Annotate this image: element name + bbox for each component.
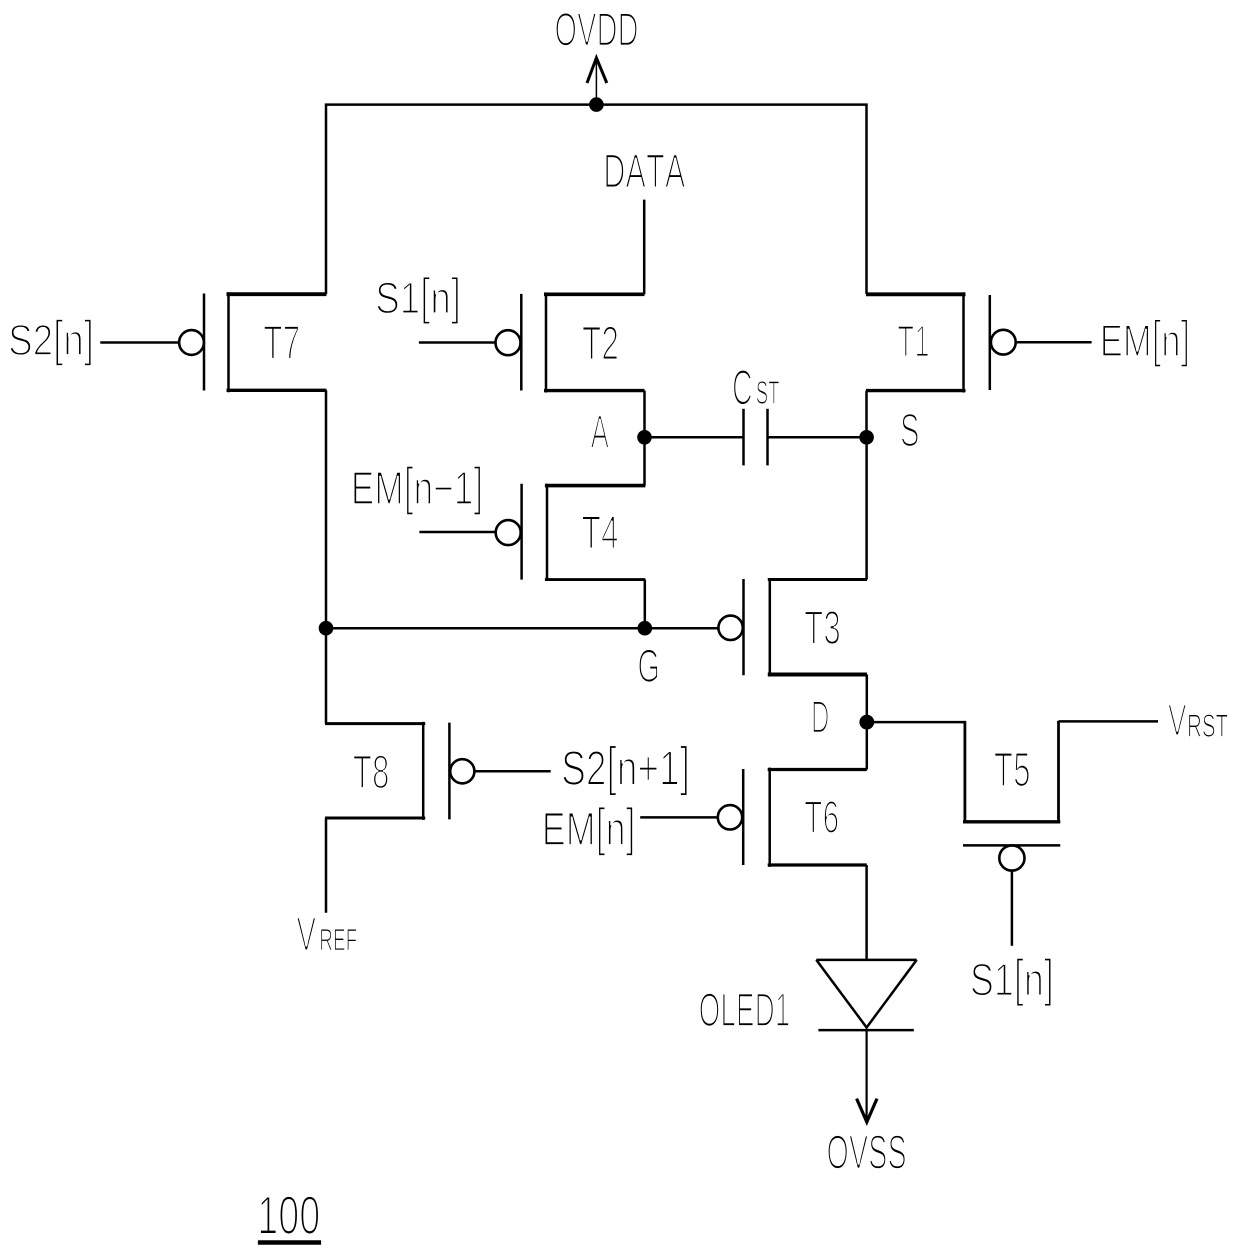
label OLED1 xyxy=(700,993,789,1027)
wire S1[n] to T2 gate xyxy=(419,341,496,344)
node D junction xyxy=(859,715,874,730)
transistor T6 xyxy=(718,768,867,867)
wire G net horizontal xyxy=(326,627,718,630)
wire node D to T5 xyxy=(867,721,965,724)
wire T8 gate to S2[n+1] xyxy=(474,770,550,773)
label DATA xyxy=(606,154,686,187)
OVDD power arrow xyxy=(587,58,607,105)
label RST subscript xyxy=(1189,714,1228,737)
node S junction xyxy=(859,430,874,445)
wire T5 to VRST xyxy=(1059,720,1159,723)
transistor T8 xyxy=(325,722,474,820)
capacitor CST xyxy=(645,409,867,466)
label T7 xyxy=(264,326,299,359)
label ST subscript xyxy=(757,381,780,404)
figure number underline xyxy=(258,1240,321,1245)
label S1[n] xyxy=(377,277,459,325)
wire T5 gate stem xyxy=(1011,871,1014,946)
label T3 xyxy=(805,611,840,645)
wire EM[n-1] to T4 gate xyxy=(419,531,495,534)
label OVDD xyxy=(556,13,637,46)
label T5 xyxy=(995,753,1030,787)
transistor T5 xyxy=(963,721,1060,871)
figure number 100 xyxy=(260,1196,319,1234)
transistor T4 xyxy=(496,484,646,581)
label OVSS xyxy=(828,1135,906,1169)
label C of CST xyxy=(733,370,751,405)
junction on T7-T8 branch xyxy=(319,621,334,636)
wire T3 drain to node D xyxy=(866,675,869,723)
node label S xyxy=(901,414,918,447)
OVSS arrow xyxy=(857,1030,877,1122)
wire T8 down to VREF xyxy=(325,818,328,913)
node label D xyxy=(813,701,828,732)
transistor T2 xyxy=(496,292,645,392)
label T2 xyxy=(583,326,618,359)
wire EM[n] to T6 gate xyxy=(640,816,718,819)
label EM[n] (T6 gate) xyxy=(545,807,633,856)
transistor T7 xyxy=(179,292,326,392)
wire T7 drain down to T8 xyxy=(325,390,328,723)
label V of VRST xyxy=(1168,705,1186,736)
wire node D down to T6 xyxy=(866,722,869,769)
wire T2 drain to node A xyxy=(643,391,646,438)
wire T6 down to OLED1 xyxy=(865,865,868,959)
label S2[n+1] xyxy=(563,745,688,796)
label EM[n-1] xyxy=(354,466,481,515)
wire T1 drain to node S xyxy=(865,391,868,438)
label S1[n] (T5 gate) xyxy=(972,958,1052,1007)
wire T1 gate to EM[n] xyxy=(1016,341,1092,344)
node OVDD junction xyxy=(589,97,604,112)
transistor T1 xyxy=(866,292,1016,392)
label REF subscript xyxy=(321,929,357,950)
wire node A down to T4 xyxy=(643,437,646,485)
label T6 xyxy=(805,801,838,833)
wire S2[n] to T7 gate xyxy=(100,341,179,344)
wire node S down to T3 xyxy=(865,437,868,579)
label T8 xyxy=(353,755,388,788)
label S2[n] xyxy=(10,319,92,366)
wire DATA drop xyxy=(643,200,646,295)
label T4 xyxy=(582,516,618,548)
wire OVDD top rail xyxy=(326,105,867,294)
node A junction xyxy=(637,430,652,445)
label T1 xyxy=(898,326,929,357)
label EM[n] (T1 gate) xyxy=(1103,319,1188,367)
node label G xyxy=(639,649,658,682)
transistor T3 xyxy=(718,578,867,676)
diode OLED1 xyxy=(816,960,916,1030)
node label A xyxy=(591,416,609,448)
label V of VREF xyxy=(297,918,316,951)
node G junction xyxy=(638,621,653,636)
wire T4 drain to node G xyxy=(644,580,647,629)
